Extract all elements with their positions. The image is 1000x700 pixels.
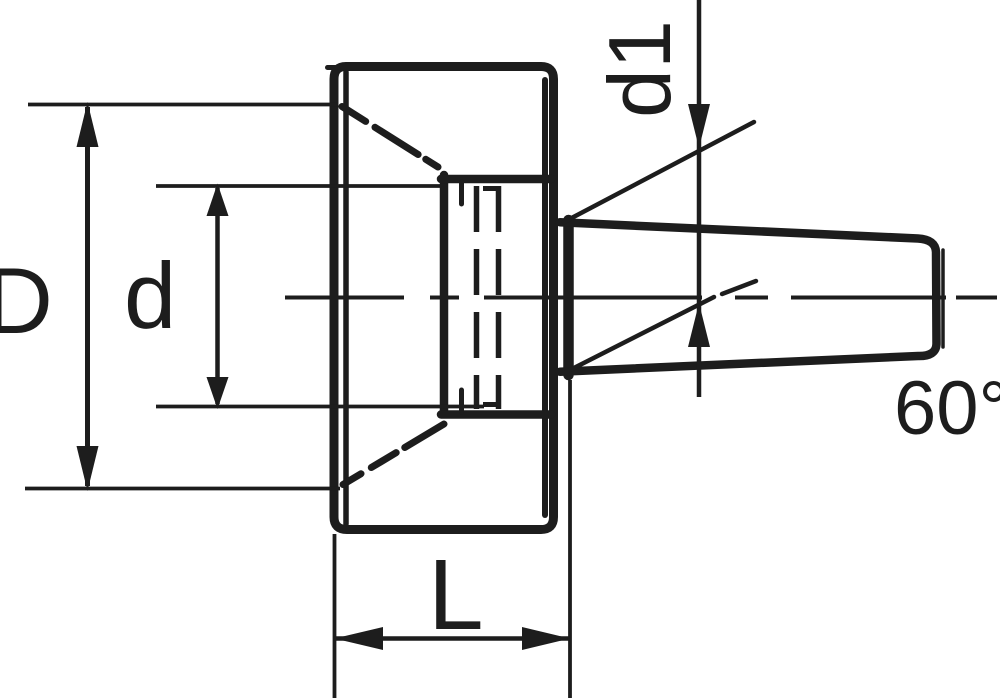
svg-text:60°: 60° xyxy=(894,366,1000,451)
body left silhouette line xyxy=(343,72,349,524)
dimension d arrow down xyxy=(207,377,229,409)
dimension D line xyxy=(85,107,90,486)
dimension L line xyxy=(334,636,570,641)
dimension L arrow left xyxy=(335,627,384,650)
dimension d1 arrow up xyxy=(688,303,710,347)
dimension L arrow right xyxy=(522,627,570,650)
thread dashed line 2 xyxy=(496,186,502,409)
thread hook top xyxy=(483,186,501,191)
shaft shoulder xyxy=(563,220,574,375)
dimension d extension top xyxy=(156,184,440,188)
dimension D extension bottom xyxy=(25,487,340,491)
dimension d extension bottom xyxy=(156,405,484,409)
dimension L extension right xyxy=(568,380,572,698)
thread hook bottom xyxy=(483,402,501,407)
dimension D extension top xyxy=(28,103,338,107)
svg-text:d1: d1 xyxy=(590,20,689,118)
body outline xyxy=(334,67,554,530)
chamfer dash bottom-left xyxy=(343,424,444,485)
shaft cap inner line xyxy=(941,250,945,347)
hole left edge xyxy=(440,175,449,413)
hole top edge xyxy=(441,175,551,184)
taper line lower dash xyxy=(722,281,756,294)
svg-text:D: D xyxy=(0,248,53,353)
body top-left overshoot tick xyxy=(328,65,338,70)
svg-text:d: d xyxy=(124,243,176,348)
thread dashed line 1 xyxy=(474,186,480,409)
dimension d1 line xyxy=(697,0,702,397)
dimension L extension left xyxy=(333,534,337,698)
hole bottom edge xyxy=(441,410,551,419)
taper line lower xyxy=(566,297,714,372)
centerline xyxy=(285,296,997,300)
counterbore tick top xyxy=(459,182,464,204)
dimension d arrow up xyxy=(207,184,229,217)
counterbore tick bottom xyxy=(459,390,464,412)
dimension D arrow down xyxy=(77,446,99,491)
body right silhouette line xyxy=(542,80,548,515)
dimension d1 arrow down xyxy=(688,104,710,148)
shaft outline xyxy=(560,222,937,371)
dimension d line xyxy=(215,188,220,404)
dimension D arrow up xyxy=(77,102,99,147)
chamfer dash top-left xyxy=(342,107,438,168)
taper line upper xyxy=(564,122,754,222)
svg-text:L: L xyxy=(428,539,484,651)
